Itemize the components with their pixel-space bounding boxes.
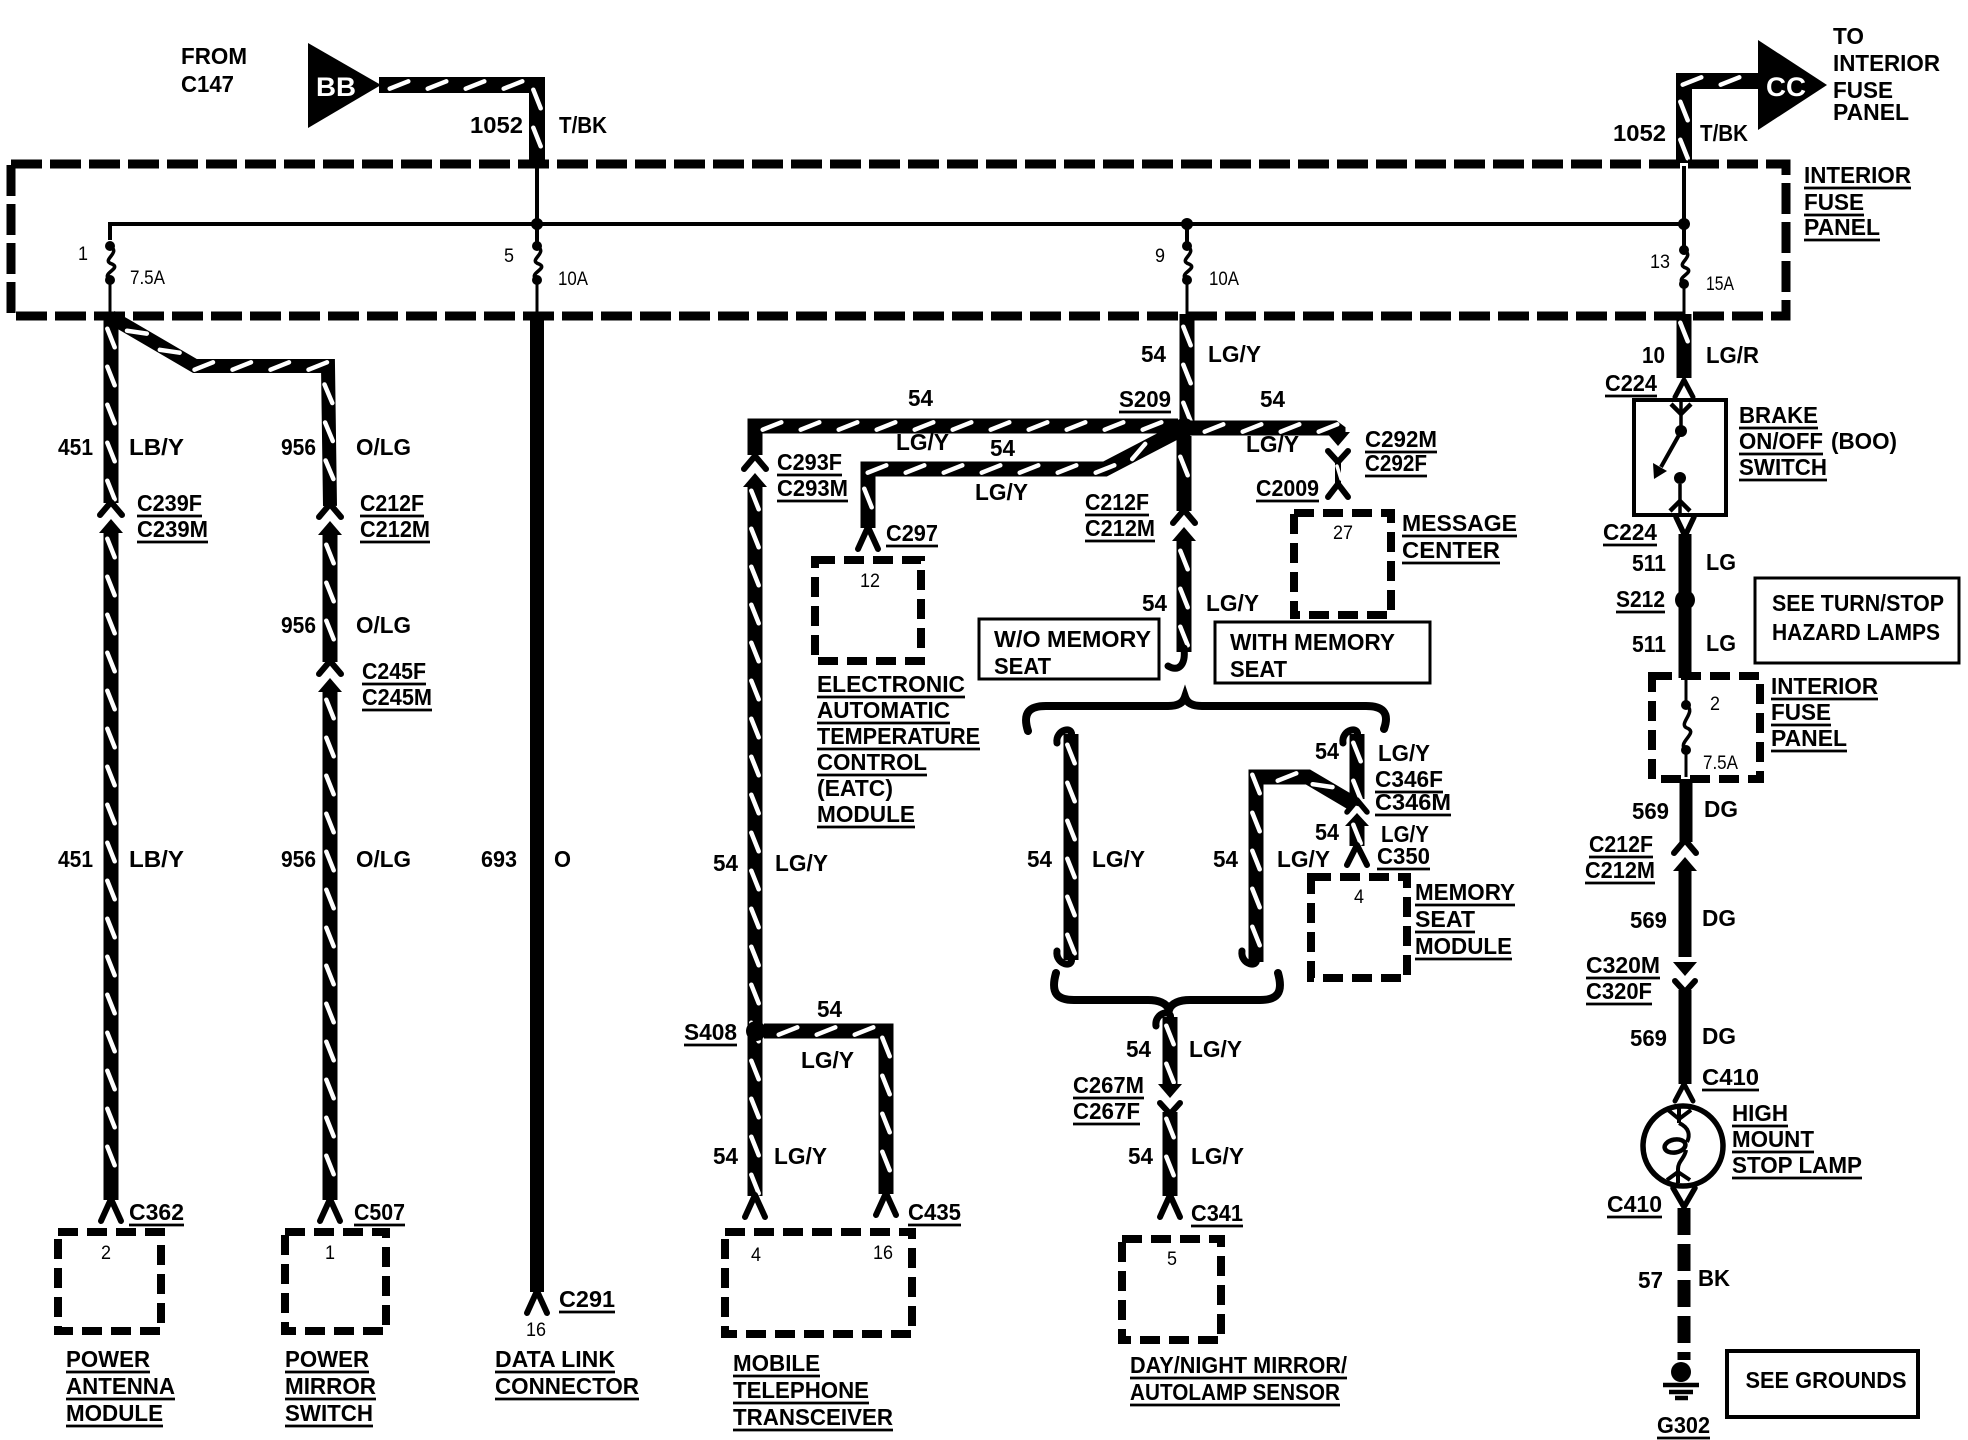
junction at fuse 9 feed	[1181, 218, 1193, 230]
svg-text:C341: C341	[1191, 1200, 1243, 1226]
svg-text:C212F: C212F	[1085, 489, 1149, 515]
wire 54 LG/Y C346F stub	[1343, 730, 1358, 743]
svg-text:DG: DG	[1702, 1023, 1736, 1049]
fuse 13 15A	[1679, 245, 1689, 255]
svg-text:PANEL: PANEL	[1833, 99, 1909, 125]
wire 54 LG/Y to C297	[868, 431, 1178, 528]
svg-text:DATA LINK: DATA LINK	[495, 1346, 615, 1372]
svg-text:C293M: C293M	[777, 475, 848, 501]
svg-text:SEE GROUNDS: SEE GROUNDS	[1746, 1367, 1907, 1393]
svg-text:FUSE: FUSE	[1804, 189, 1864, 215]
curl end of centre wire	[1168, 648, 1184, 668]
wire 693 O	[530, 314, 544, 1292]
svg-text:C410: C410	[1607, 1191, 1662, 1217]
svg-text:54: 54	[713, 850, 738, 876]
svg-text:C362: C362	[129, 1199, 184, 1225]
svg-text:T/BK: T/BK	[559, 112, 607, 138]
svg-text:S209: S209	[1119, 386, 1171, 412]
message center (dashed box)	[1294, 513, 1391, 615]
wire end connector C291	[527, 1291, 547, 1313]
svg-text:15A: 15A	[1706, 274, 1734, 295]
wire end connector (mobile pin 4)	[745, 1195, 765, 1217]
svg-text:C224: C224	[1603, 519, 1657, 545]
svg-text:INTERIOR: INTERIOR	[1804, 162, 1911, 188]
wire 54 LG/Y right memory branch	[1256, 777, 1352, 962]
svg-text:C410: C410	[1702, 1064, 1759, 1090]
svg-text:CC: CC	[1766, 72, 1806, 102]
svg-text:INTERIOR: INTERIOR	[1771, 673, 1878, 699]
svg-text:54: 54	[990, 435, 1015, 461]
svg-text:G302: G302	[1657, 1412, 1710, 1438]
svg-text:54: 54	[908, 385, 933, 411]
svg-text:C350: C350	[1377, 843, 1430, 869]
svg-text:AUTOMATIC: AUTOMATIC	[817, 697, 950, 723]
svg-text:4: 4	[751, 1245, 761, 1266]
svg-text:HAZARD LAMPS: HAZARD LAMPS	[1772, 619, 1940, 645]
svg-text:DG: DG	[1704, 796, 1738, 822]
svg-text:LG/Y: LG/Y	[975, 479, 1028, 505]
see grounds (box)	[1727, 1351, 1918, 1417]
svg-text:LG/Y: LG/Y	[1277, 846, 1330, 872]
svg-text:C292M: C292M	[1365, 426, 1437, 452]
day/night mirror (dashed box)	[1122, 1239, 1221, 1340]
svg-text:LG: LG	[1706, 630, 1736, 656]
bracket (bottom brace)	[1054, 973, 1280, 1010]
svg-text:511: 511	[1632, 550, 1666, 576]
EATC module (dashed box)	[815, 560, 921, 661]
wire 54 LG/Y S209 to C292M	[1190, 428, 1338, 435]
svg-text:9: 9	[1155, 246, 1165, 267]
w/o memory seat (box)	[979, 619, 1159, 679]
wire end connector C341	[1160, 1195, 1180, 1217]
off-page arrow BB	[308, 43, 381, 128]
wire 54 LG/Y S408 branch to C435	[764, 1031, 886, 1194]
svg-text:STOP LAMP: STOP LAMP	[1732, 1152, 1862, 1178]
svg-text:4: 4	[1354, 887, 1364, 908]
svg-text:O/LG: O/LG	[356, 846, 411, 872]
connector C224 (below switch)	[1676, 517, 1694, 536]
svg-text:10: 10	[1642, 342, 1665, 368]
svg-text:POWER: POWER	[66, 1346, 150, 1372]
svg-text:1052: 1052	[470, 112, 523, 138]
svg-text:SEE TURN/STOP: SEE TURN/STOP	[1772, 590, 1944, 616]
connector C239F/C239M	[100, 502, 122, 515]
svg-text:S408: S408	[684, 1019, 737, 1045]
connector arrow C350 wire	[1345, 813, 1369, 826]
svg-text:CONTROL: CONTROL	[817, 749, 927, 775]
svg-text:27: 27	[1333, 523, 1353, 544]
wire end connector C435	[876, 1193, 896, 1215]
svg-text:451: 451	[58, 846, 93, 872]
svg-text:1052: 1052	[1613, 120, 1666, 146]
svg-text:LG/Y: LG/Y	[775, 850, 828, 876]
svg-text:54: 54	[1213, 846, 1238, 872]
wire 54 LG/Y left memory branch	[1057, 730, 1072, 743]
wire 451 LB/Y	[104, 314, 119, 503]
svg-text:5: 5	[504, 246, 514, 267]
wire 1052 T/BK to CC	[1684, 81, 1758, 163]
interior fuse panel lower (dashed box)	[1652, 676, 1760, 779]
svg-text:57: 57	[1638, 1267, 1663, 1293]
svg-text:12: 12	[860, 571, 880, 592]
svg-text:C507: C507	[354, 1199, 405, 1225]
connector C320M/C320F	[1673, 962, 1697, 976]
connector C212F/C212M (right)	[1674, 840, 1696, 853]
svg-text:BK: BK	[1698, 1265, 1730, 1291]
wire end connector C350	[1347, 845, 1367, 865]
wire 1052 T/BK from BB into fuse panel	[379, 85, 537, 163]
bus wire inside fuse panel	[110, 224, 1684, 240]
svg-text:54: 54	[1142, 590, 1167, 616]
svg-text:54: 54	[1260, 386, 1285, 412]
junction at fuse 13 feed	[1678, 218, 1690, 230]
svg-text:C147: C147	[181, 71, 234, 97]
connector below lamp	[1673, 1188, 1695, 1207]
svg-text:C224: C224	[1605, 370, 1657, 396]
svg-text:LG: LG	[1706, 549, 1736, 575]
svg-text:1: 1	[78, 244, 88, 265]
wire 10 LG/R	[1677, 314, 1692, 378]
connector C212F/C212M (mirror branch)	[319, 504, 341, 517]
junction at fuse 5 feed	[531, 218, 543, 230]
svg-text:54: 54	[1141, 341, 1166, 367]
svg-text:54: 54	[1027, 846, 1052, 872]
svg-text:MODULE: MODULE	[1415, 933, 1512, 959]
svg-text:2: 2	[1710, 694, 1720, 715]
svg-text:ANTENNA: ANTENNA	[66, 1373, 175, 1399]
wire 57 BK (dashed)	[1678, 1208, 1691, 1360]
svg-text:LG/Y: LG/Y	[896, 429, 949, 455]
connector C267M/C267F	[1158, 1084, 1182, 1098]
svg-text:569: 569	[1632, 798, 1669, 824]
svg-text:C320F: C320F	[1586, 978, 1652, 1004]
wire 54 LG/Y to day/night mirror	[1156, 1013, 1171, 1026]
svg-text:LG/Y: LG/Y	[1092, 846, 1145, 872]
wire 569 DG (2)	[1679, 868, 1692, 957]
memory seat module (dashed box)	[1311, 877, 1407, 978]
high mount stop lamp	[1643, 1106, 1723, 1186]
fuse 2 7.5A	[1685, 680, 1688, 702]
connector C292M/C292F	[1326, 432, 1350, 446]
svg-text:C212F: C212F	[360, 490, 424, 516]
svg-text:LG/Y: LG/Y	[774, 1143, 827, 1169]
svg-text:DG: DG	[1702, 905, 1736, 931]
svg-text:LG/Y: LG/Y	[1208, 341, 1261, 367]
svg-text:1: 1	[325, 1243, 335, 1264]
svg-text:54: 54	[713, 1143, 738, 1169]
power mirror switch (dashed box)	[285, 1232, 386, 1331]
svg-text:C291: C291	[559, 1286, 615, 1312]
svg-text:ON/OFF: ON/OFF	[1739, 428, 1823, 454]
svg-text:MIRROR: MIRROR	[285, 1373, 376, 1399]
svg-text:7.5A: 7.5A	[130, 268, 165, 289]
svg-text:TRANSCEIVER: TRANSCEIVER	[733, 1404, 893, 1430]
svg-text:S212: S212	[1616, 586, 1665, 612]
svg-text:BRAKE: BRAKE	[1739, 402, 1818, 428]
interior fuse panel (dashed outline)	[11, 164, 1786, 316]
svg-text:C435: C435	[908, 1199, 961, 1225]
svg-text:SEAT: SEAT	[1230, 656, 1288, 682]
wire 54 LG/Y to EATC harness	[755, 426, 1178, 455]
brake on/off (BOO) switch box	[1634, 400, 1726, 515]
svg-text:C245M: C245M	[362, 684, 432, 710]
connector C245F/C245M	[319, 661, 341, 674]
svg-text:INTERIOR: INTERIOR	[1833, 50, 1940, 76]
svg-text:16: 16	[526, 1320, 546, 1341]
svg-text:MESSAGE: MESSAGE	[1402, 510, 1517, 536]
svg-text:LG/Y: LG/Y	[1378, 740, 1430, 766]
svg-text:W/O MEMORY: W/O MEMORY	[994, 626, 1151, 652]
wire 511 LG (upper)	[1679, 534, 1692, 593]
svg-text:AUTOLAMP SENSOR: AUTOLAMP SENSOR	[1130, 1379, 1340, 1405]
svg-text:54: 54	[1126, 1036, 1151, 1062]
svg-text:7.5A: 7.5A	[1703, 753, 1738, 774]
svg-text:C212M: C212M	[1085, 515, 1155, 541]
svg-text:MODULE: MODULE	[66, 1400, 163, 1426]
svg-text:FROM: FROM	[181, 43, 247, 69]
svg-text:T/BK: T/BK	[1700, 120, 1748, 146]
power antenna module (dashed box)	[58, 1232, 161, 1331]
see turn/stop hazard lamps (box)	[1755, 578, 1959, 663]
connector C212F/C212M (centre)	[1173, 510, 1195, 523]
mobile telephone transceiver (dashed box)	[725, 1232, 912, 1334]
fuse 5 10A	[532, 241, 542, 251]
svg-text:10A: 10A	[1209, 269, 1239, 290]
wire end connector C507	[320, 1199, 340, 1221]
svg-text:TO: TO	[1833, 23, 1864, 49]
svg-text:13: 13	[1650, 252, 1670, 273]
fuse 9 10A	[1182, 241, 1192, 251]
svg-text:MEMORY: MEMORY	[1415, 879, 1515, 905]
svg-text:C267F: C267F	[1073, 1098, 1140, 1124]
connector C293F/C293M	[744, 456, 766, 469]
svg-text:LG/Y: LG/Y	[1246, 431, 1299, 457]
svg-text:C297: C297	[886, 520, 938, 546]
svg-text:2: 2	[101, 1243, 111, 1264]
off-page arrow CC	[1758, 40, 1827, 130]
svg-text:C292F: C292F	[1365, 450, 1427, 476]
svg-text:SWITCH: SWITCH	[285, 1400, 373, 1426]
with memory seat (box)	[1215, 622, 1430, 683]
wire 569 DG (1)	[1680, 779, 1693, 842]
splice S212	[1675, 590, 1695, 610]
svg-text:C267M: C267M	[1073, 1072, 1144, 1098]
svg-text:CENTER: CENTER	[1402, 537, 1500, 563]
svg-text:O/LG: O/LG	[356, 612, 411, 638]
svg-text:LG/Y: LG/Y	[1206, 590, 1259, 616]
svg-text:ELECTRONIC: ELECTRONIC	[817, 671, 965, 697]
svg-text:HIGH: HIGH	[1732, 1100, 1788, 1126]
wire 54 LG/Y S209 down to memory-seat split	[1177, 436, 1192, 511]
BOO switch blade	[1661, 435, 1679, 467]
splice S209	[1174, 418, 1194, 438]
svg-text:LG/R: LG/R	[1706, 342, 1759, 368]
svg-text:LB/Y: LB/Y	[129, 846, 184, 872]
svg-text:16: 16	[873, 1243, 893, 1264]
svg-text:54: 54	[1128, 1143, 1153, 1169]
svg-text:BB: BB	[316, 72, 356, 102]
svg-text:54: 54	[1315, 738, 1339, 764]
svg-text:MODULE: MODULE	[817, 801, 915, 827]
wire 54 LG/Y fuse9 to S209	[1180, 314, 1195, 421]
svg-text:54: 54	[817, 996, 842, 1022]
svg-text:LB/Y: LB/Y	[129, 434, 184, 460]
svg-text:TEMPERATURE: TEMPERATURE	[817, 723, 980, 749]
connector into lamp	[1675, 1084, 1693, 1101]
splice S408	[746, 1021, 766, 1041]
svg-text:TELEPHONE: TELEPHONE	[733, 1377, 869, 1403]
svg-text:C212M: C212M	[1585, 857, 1655, 883]
svg-text:LG/Y: LG/Y	[1189, 1036, 1242, 1062]
svg-text:C239F: C239F	[137, 490, 202, 516]
svg-text:LG/Y: LG/Y	[1191, 1143, 1244, 1169]
wire end connector C362	[101, 1199, 121, 1221]
svg-text:54: 54	[1315, 819, 1339, 845]
svg-text:C239M: C239M	[137, 516, 208, 542]
wire end connector C297	[858, 527, 878, 549]
svg-text:C212M: C212M	[360, 516, 430, 542]
svg-text:10A: 10A	[558, 269, 588, 290]
svg-text:693: 693	[481, 846, 517, 872]
bracket (top brace)	[1026, 697, 1386, 731]
BOO switch lower terminal	[1678, 484, 1682, 514]
svg-text:956: 956	[281, 846, 316, 872]
wire 511 LG (lower)	[1679, 608, 1692, 678]
svg-text:SEAT: SEAT	[994, 653, 1052, 679]
svg-text:SWITCH: SWITCH	[1739, 454, 1827, 480]
svg-text:C346M: C346M	[1375, 789, 1451, 815]
ground G302	[1671, 1362, 1691, 1382]
svg-text:PANEL: PANEL	[1771, 725, 1847, 751]
svg-text:PANEL: PANEL	[1804, 214, 1880, 240]
svg-text:MOUNT: MOUNT	[1732, 1126, 1815, 1152]
svg-text:569: 569	[1630, 907, 1667, 933]
svg-text:DAY/NIGHT MIRROR/: DAY/NIGHT MIRROR/	[1130, 1352, 1347, 1378]
svg-text:CONNECTOR: CONNECTOR	[495, 1373, 639, 1399]
svg-text:511: 511	[1632, 631, 1666, 657]
svg-text:O: O	[554, 846, 571, 872]
svg-text:C293F: C293F	[777, 449, 842, 475]
arrowhead into C346M	[1344, 789, 1362, 807]
svg-text:O/LG: O/LG	[356, 434, 411, 460]
svg-text:FUSE: FUSE	[1771, 699, 1831, 725]
svg-text:C212F: C212F	[1589, 831, 1653, 857]
wire end connector C224	[1675, 380, 1693, 397]
svg-text:SEAT: SEAT	[1415, 906, 1476, 932]
svg-text:LG/Y: LG/Y	[801, 1047, 854, 1073]
svg-text:956: 956	[281, 434, 316, 460]
svg-text:WITH MEMORY: WITH MEMORY	[1230, 629, 1395, 655]
svg-text:451: 451	[58, 434, 93, 460]
svg-text:MOBILE: MOBILE	[733, 1350, 820, 1376]
svg-text:(BOO): (BOO)	[1831, 428, 1897, 454]
svg-text:POWER: POWER	[285, 1346, 369, 1372]
svg-text:C320M: C320M	[1586, 952, 1660, 978]
fuse 1 7.5A	[105, 241, 115, 251]
wire 956 O/LG	[111, 317, 330, 506]
svg-text:956: 956	[281, 612, 316, 638]
BOO switch upper terminal	[1679, 402, 1683, 428]
wire 569 DG (3)	[1679, 990, 1692, 1084]
svg-text:5: 5	[1167, 1249, 1177, 1270]
svg-text:C245F: C245F	[362, 658, 426, 684]
svg-text:569: 569	[1630, 1025, 1667, 1051]
svg-text:(EATC): (EATC)	[817, 775, 893, 801]
svg-text:C2009: C2009	[1256, 475, 1319, 501]
